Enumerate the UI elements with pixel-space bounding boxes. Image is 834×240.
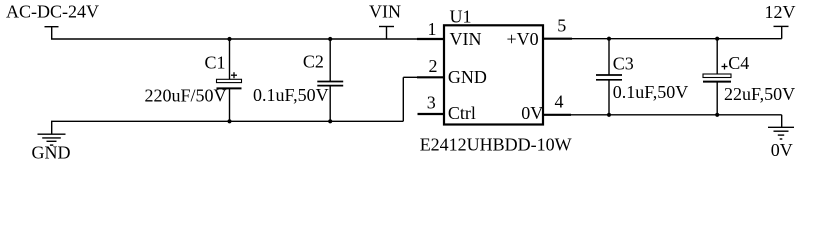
- capacitor C1: [217, 39, 242, 121]
- svg-text:Ctrl: Ctrl: [448, 103, 476, 123]
- ground 0V: [768, 115, 794, 139]
- svg-text:5: 5: [557, 16, 566, 36]
- svg-text:C2: C2: [303, 52, 324, 72]
- svg-text:E2412UHBDD-10W: E2412UHBDD-10W: [420, 135, 572, 155]
- pin 3 stub: [418, 113, 445, 115]
- junction C1 top: [227, 37, 231, 41]
- pin 2 stub: [417, 76, 444, 78]
- terminal 12V: [774, 26, 789, 38]
- svg-text:2: 2: [429, 56, 438, 76]
- svg-text:VIN: VIN: [369, 2, 401, 22]
- junction C3 top: [607, 37, 611, 41]
- wire top rail right (pin 5 to 12V): [543, 38, 782, 40]
- junction C2 top: [328, 37, 332, 41]
- svg-text:AC-DC-24V: AC-DC-24V: [6, 2, 99, 22]
- svg-text:GND: GND: [32, 143, 71, 163]
- op-amp U1 box: [444, 25, 543, 124]
- svg-text:0V: 0V: [521, 103, 543, 123]
- pin 4 stub: [543, 114, 571, 116]
- terminal VIN: [379, 27, 394, 40]
- svg-text:C1: C1: [205, 52, 226, 72]
- junction C4 top: [715, 37, 719, 41]
- svg-text:C3: C3: [613, 54, 634, 74]
- svg-text:C4: C4: [728, 53, 749, 73]
- svg-text:12V: 12V: [765, 2, 796, 22]
- svg-text:VIN: VIN: [450, 29, 482, 49]
- junction C2 bottom: [328, 119, 332, 123]
- svg-text:220uF/50V: 220uF/50V: [145, 86, 227, 106]
- svg-text:22uF,50V: 22uF,50V: [724, 84, 795, 104]
- wire bottom rail right (pin 4 to 0V): [543, 114, 782, 116]
- capacitor C4: [703, 39, 731, 115]
- junction C4 bottom: [715, 113, 719, 117]
- svg-text:1: 1: [428, 19, 437, 39]
- wire bottom rail left (GND net): [51, 120, 403, 122]
- svg-text:3: 3: [427, 92, 436, 112]
- ground GND: [38, 121, 66, 145]
- svg-text:0.1uF,50V: 0.1uF,50V: [253, 85, 329, 105]
- junction C1 bottom: [227, 119, 231, 123]
- svg-text:0V: 0V: [771, 140, 793, 160]
- wire GND net: pin2 elbow down to bottom rail: [403, 77, 418, 121]
- svg-text:+V0: +V0: [507, 29, 539, 49]
- pin 1 stub: [417, 38, 444, 40]
- pin 5 stub: [543, 38, 572, 40]
- junction C3 bottom: [607, 113, 611, 117]
- svg-text:4: 4: [555, 91, 564, 111]
- wire top rail left (AC input to pin 1): [51, 38, 418, 40]
- capacitor C3: [596, 39, 622, 115]
- svg-text:GND: GND: [448, 67, 487, 87]
- terminal AC-DC-24V: [45, 27, 59, 39]
- svg-text:0.1uF,50V: 0.1uF,50V: [613, 82, 689, 102]
- svg-text:U1: U1: [450, 7, 472, 27]
- capacitor C2: [317, 39, 343, 121]
